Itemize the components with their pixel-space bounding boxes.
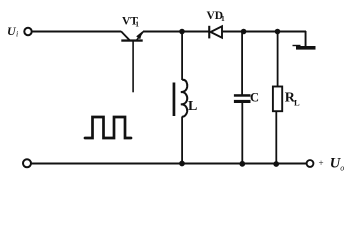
wire capacitor to bottom rail bbox=[241, 103, 243, 164]
label +Uo bbox=[319, 156, 345, 173]
node top of C junction dot bbox=[241, 29, 247, 35]
pulse waveform symbol bbox=[85, 117, 131, 138]
collector diagonal right with arrow bbox=[137, 32, 144, 41]
wire inductor to bottom rail bbox=[181, 117, 183, 165]
svg-text:L: L bbox=[294, 98, 300, 108]
label VT1 bbox=[122, 15, 139, 28]
wire VT1 to diode bbox=[143, 31, 209, 33]
core bar bbox=[173, 83, 176, 117]
wire input to VT1 emitter bbox=[32, 31, 122, 33]
svg-text:C: C bbox=[250, 91, 259, 105]
terminal input top bbox=[24, 28, 31, 35]
wire diode to ground corner bbox=[223, 31, 306, 33]
capacitor C bbox=[234, 94, 251, 103]
svg-text:1: 1 bbox=[135, 20, 139, 29]
inductor L bbox=[173, 80, 188, 117]
junction dot bottom of RL bbox=[273, 161, 279, 167]
base bar bbox=[121, 39, 142, 41]
junction dot bottom of L bbox=[179, 161, 185, 167]
ground bbox=[293, 31, 316, 50]
label RL bbox=[285, 90, 300, 107]
node A junction dot (top of L) bbox=[179, 29, 185, 35]
wire node A down to inductor bbox=[181, 32, 183, 81]
svg-text:1: 1 bbox=[221, 14, 225, 23]
resistor RL bbox=[273, 87, 282, 112]
svg-text:i: i bbox=[16, 30, 18, 39]
wire top to capacitor bbox=[241, 32, 243, 95]
junction dot bottom of C bbox=[239, 161, 245, 167]
coil bbox=[181, 80, 187, 117]
svg-text:o: o bbox=[340, 164, 344, 173]
wire top to RL bbox=[277, 32, 279, 87]
transistor Q VT1 bbox=[121, 31, 143, 92]
label Ui bbox=[7, 24, 18, 39]
terminal input bottom bbox=[23, 159, 31, 167]
cathode bar bbox=[208, 26, 210, 39]
label VD1 bbox=[207, 10, 226, 23]
diode VD1 bbox=[208, 26, 222, 39]
svg-text:L: L bbox=[188, 99, 197, 114]
node top of RL junction dot bbox=[275, 29, 281, 35]
svg-text:+: + bbox=[319, 158, 324, 168]
base lead bbox=[132, 42, 134, 93]
terminal output bbox=[307, 160, 314, 167]
anode triangle bbox=[211, 26, 222, 37]
bottom rail wire bbox=[31, 163, 307, 165]
emitter diagonal left bbox=[121, 31, 130, 40]
wire RL to bottom rail bbox=[275, 111, 277, 164]
